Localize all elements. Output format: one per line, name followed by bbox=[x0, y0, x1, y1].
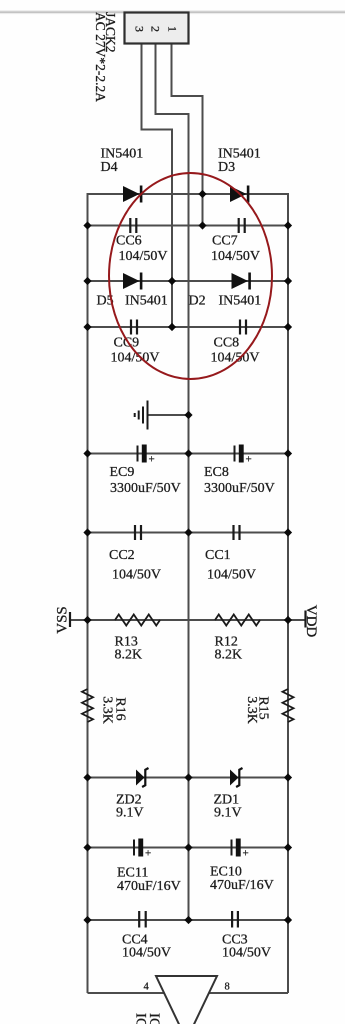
wire pin 1 bbox=[172, 44, 203, 226]
wire pin 3 bbox=[142, 44, 173, 328]
svg-text:D3: D3 bbox=[218, 160, 235, 175]
node row3 x=172 bbox=[168, 277, 176, 285]
svg-text:+: + bbox=[246, 454, 252, 466]
node EC11 row right bbox=[284, 843, 292, 851]
node VSS row left bbox=[83, 616, 91, 624]
node row2 left bbox=[83, 221, 91, 229]
node ZD row left bbox=[83, 773, 91, 781]
svg-text:8.2K: 8.2K bbox=[215, 648, 243, 663]
diode D5 bbox=[123, 273, 142, 290]
wire row CC4/CC3 bbox=[88, 919, 289, 921]
svg-text:8: 8 bbox=[225, 982, 230, 993]
svg-text:IN5401: IN5401 bbox=[125, 294, 168, 309]
svg-text:4: 4 bbox=[144, 982, 150, 993]
svg-text:3300uF/50V: 3300uF/50V bbox=[204, 481, 275, 496]
svg-text:104/50V: 104/50V bbox=[112, 568, 161, 583]
node VDD row right bbox=[284, 616, 292, 624]
node ZD row center bbox=[184, 773, 192, 781]
terminal VSS bbox=[55, 606, 71, 634]
capacitor CC7 bbox=[239, 218, 245, 233]
capacitor CC3 bbox=[232, 911, 238, 928]
capacitor CC4 bbox=[139, 911, 146, 928]
diode D3 bbox=[230, 186, 249, 203]
svg-text:9.1V: 9.1V bbox=[214, 806, 242, 821]
node EC11 row center bbox=[184, 843, 192, 851]
svg-text:CC8: CC8 bbox=[214, 336, 240, 351]
junction dots group bbox=[83, 190, 292, 924]
node CC2 row left bbox=[83, 528, 91, 536]
capacitor EC11 (electrolytic) bbox=[134, 839, 151, 860]
op-amp U1 triangle bbox=[156, 976, 217, 1024]
svg-text:104/50V: 104/50V bbox=[211, 249, 260, 264]
wire op-amp right (pin 8) bbox=[209, 992, 288, 994]
node row3 right bbox=[284, 277, 292, 285]
svg-text:CC6: CC6 bbox=[116, 234, 142, 249]
node CC2 row center bbox=[184, 528, 192, 536]
svg-text:+: + bbox=[145, 848, 151, 860]
svg-text:CC2: CC2 bbox=[109, 548, 135, 563]
node EC row right bbox=[284, 449, 292, 457]
diode D4 bbox=[123, 186, 142, 203]
svg-text:470uF/16V: 470uF/16V bbox=[117, 879, 181, 894]
node row4 right bbox=[284, 323, 292, 331]
svg-text:3.3K: 3.3K bbox=[100, 696, 115, 724]
svg-text:104/50V: 104/50V bbox=[122, 946, 171, 961]
svg-text:104/50V: 104/50V bbox=[207, 568, 256, 583]
wire VDD stub bbox=[288, 619, 306, 621]
svg-text:+: + bbox=[149, 454, 155, 466]
node CC4 row center bbox=[184, 916, 192, 924]
wire row R13/R12 bbox=[70, 619, 288, 621]
svg-text:IC2: IC2 bbox=[133, 1013, 149, 1024]
svg-text:104/50V: 104/50V bbox=[222, 946, 271, 961]
svg-text:AC 27V*2-2.2A: AC 27V*2-2.2A bbox=[93, 12, 108, 102]
resistor R12 bbox=[215, 615, 260, 626]
node row2 x=202.5 bbox=[198, 221, 206, 229]
wire row 3 (D5/D2) bbox=[88, 280, 289, 282]
svg-text:CC1: CC1 bbox=[205, 548, 231, 563]
svg-text:D4: D4 bbox=[101, 160, 118, 175]
svg-text:1: 1 bbox=[166, 26, 180, 32]
svg-text:3300uF/50V: 3300uF/50V bbox=[110, 481, 181, 496]
svg-text:104/50V: 104/50V bbox=[119, 249, 168, 264]
capacitor CC6 bbox=[130, 218, 136, 233]
diode D2 bbox=[232, 273, 251, 290]
wire row 1 (D4/D3 top rail) bbox=[87, 193, 290, 195]
svg-text:EC9: EC9 bbox=[110, 465, 135, 480]
svg-text:3: 3 bbox=[133, 26, 147, 32]
resistor R15 bbox=[283, 689, 294, 722]
capacitor CC9 bbox=[131, 320, 137, 335]
wire row ZD2/ZD1 bbox=[88, 777, 289, 779]
capacitor EC10 (electrolytic) bbox=[232, 839, 249, 860]
svg-text:CC7: CC7 bbox=[212, 234, 238, 249]
svg-text:+: + bbox=[243, 848, 249, 860]
wire ground stub bbox=[148, 414, 189, 416]
wire op-amp left (pin 4) bbox=[88, 992, 165, 994]
capacitor EC8 (electrolytic) bbox=[235, 445, 252, 466]
node EC11 row left bbox=[83, 843, 91, 851]
node row3 left bbox=[83, 277, 91, 285]
node row4 left bbox=[83, 323, 91, 331]
resistor R16 bbox=[82, 689, 93, 722]
terminal VDD bbox=[303, 605, 319, 638]
node EC row center bbox=[184, 449, 192, 457]
zener diode ZD2 bbox=[136, 768, 149, 787]
svg-text:3.3K: 3.3K bbox=[244, 696, 259, 724]
svg-text:IN5401: IN5401 bbox=[219, 294, 262, 309]
wire row EC11/EC10 bbox=[88, 847, 289, 849]
svg-text:470uF/16V: 470uF/16V bbox=[210, 878, 274, 893]
capacitor CC2 bbox=[135, 525, 141, 540]
ground bbox=[135, 401, 148, 430]
node ZD row right bbox=[284, 773, 292, 781]
node EC row left bbox=[83, 449, 91, 457]
node CC2 row right bbox=[284, 528, 292, 536]
svg-text:EC8: EC8 bbox=[204, 465, 229, 480]
wire row 4 (CC9/CC8) bbox=[88, 326, 289, 328]
wire row 2 (CC6/CC7) bbox=[88, 225, 289, 227]
svg-text:8.2K: 8.2K bbox=[115, 648, 143, 663]
red highlight ellipse bbox=[109, 173, 272, 379]
resistor R13 bbox=[115, 615, 160, 626]
node CC4 row left bbox=[83, 916, 91, 924]
zener diode ZD1 bbox=[230, 768, 243, 787]
connector JACK2 body bbox=[125, 13, 189, 44]
svg-text:VSS: VSS bbox=[55, 606, 71, 634]
wire row CC2/CC1 bbox=[88, 532, 289, 534]
svg-text:VDD: VDD bbox=[303, 605, 319, 638]
wire row EC9/EC8 bbox=[88, 453, 289, 455]
wire right rail bbox=[287, 193, 289, 993]
wires group bbox=[70, 44, 306, 994]
wire left rail bbox=[87, 193, 89, 993]
node row4 x=172 bbox=[168, 323, 176, 331]
svg-text:9.1V: 9.1V bbox=[116, 806, 144, 821]
svg-text:D2: D2 bbox=[189, 294, 206, 309]
node row1 x=202.5 bbox=[198, 190, 206, 198]
node row2 right bbox=[284, 221, 292, 229]
page divider line bbox=[0, 10, 345, 11]
capacitor CC8 bbox=[240, 320, 246, 335]
node ground bbox=[184, 411, 192, 419]
wire center tap (pin 2) bbox=[156, 44, 189, 921]
capacitor CC1 bbox=[234, 525, 240, 540]
svg-text:2: 2 bbox=[149, 26, 163, 32]
node CC4 row right bbox=[284, 916, 292, 924]
capacitor EC9 (electrolytic) bbox=[138, 445, 155, 466]
